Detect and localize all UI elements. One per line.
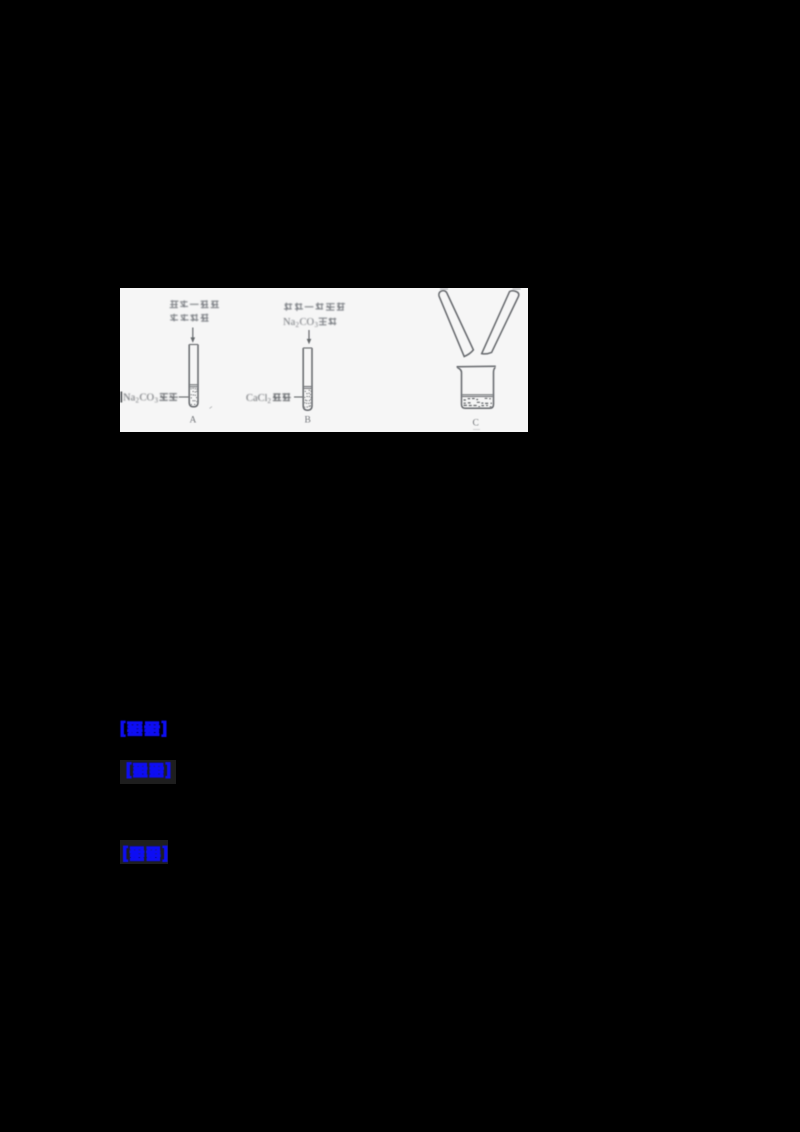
arrow into tube B: [307, 330, 312, 344]
beaker rim: [457, 365, 496, 367]
beaker liquid dots: [464, 398, 493, 407]
blue heading 2 "[jie xi]": [124, 760, 174, 781]
tube B mouth line: [303, 347, 312, 349]
svg-text:3: 3: [155, 397, 159, 405]
CaCl2 solution label (tube B): [246, 393, 291, 405]
panel background: [120, 288, 528, 432]
arrow into tube A: [191, 328, 196, 343]
char 2: [149, 764, 164, 777]
char 1: [133, 764, 148, 777]
blue heading 1 "[da an]": [118, 718, 174, 742]
svg-text:B: B: [305, 416, 311, 426]
test tube A outline: [189, 345, 198, 407]
bracket close: [161, 721, 166, 737]
svg-text:CO: CO: [140, 393, 155, 404]
tube A liquid dots: [190, 388, 198, 404]
char 1: [130, 847, 145, 860]
test tube B outline: [303, 348, 312, 410]
gray highlight box 2: [120, 760, 176, 784]
svg-text:Na: Na: [283, 317, 296, 328]
small mark under C: [473, 429, 480, 431]
pointer line to tube A: [179, 396, 189, 398]
bracket open: [123, 846, 128, 862]
caption line2 Na2CO3 solution (tube B): [283, 317, 336, 329]
scanned chemistry figure panel: [120, 288, 528, 432]
svg-text:CaCl: CaCl: [246, 393, 268, 404]
pointer line to tube B: [294, 396, 303, 398]
tube A liquid surface: [190, 385, 198, 387]
tilted test tube C-right: [482, 291, 519, 354]
char 1: [127, 722, 143, 735]
Na2CO3 solution label (tube A): [123, 393, 178, 405]
svg-text:A: A: [190, 416, 197, 426]
faint smudges at panel top edge: [440, 288, 521, 290]
blue heading 3 "[dian ping]": [121, 843, 169, 865]
beaker liquid surface: [462, 395, 493, 397]
svg-text:Na: Na: [123, 393, 136, 404]
char 2: [146, 847, 161, 860]
svg-text:3: 3: [315, 321, 319, 329]
caption line2 "de xi yan suan" (tube A): [170, 314, 208, 322]
char 2: [144, 722, 160, 735]
bracket open: [121, 721, 126, 737]
bracket open: [127, 762, 132, 778]
faint mark right of tube A: [210, 407, 213, 409]
tube B liquid dots: [304, 390, 312, 407]
tube A mouth line: [189, 344, 198, 346]
gray highlight box 3: [120, 840, 168, 864]
tilted test tube C-left: [439, 291, 474, 357]
bracket close: [165, 762, 170, 778]
beaker body: [457, 367, 495, 408]
caption line1 "di jia yi ding liang de" (tube B): [284, 303, 345, 312]
thin line work group: [121, 289, 520, 430]
tube B liquid surface: [304, 387, 312, 389]
caption line1 "di jia yi ding liang" (tube A): [170, 300, 219, 308]
bracket close: [162, 846, 167, 862]
svg-text:2: 2: [268, 397, 272, 405]
left edge tick: [120, 392, 122, 403]
svg-text:C: C: [473, 419, 479, 429]
svg-text:CO: CO: [300, 317, 315, 328]
